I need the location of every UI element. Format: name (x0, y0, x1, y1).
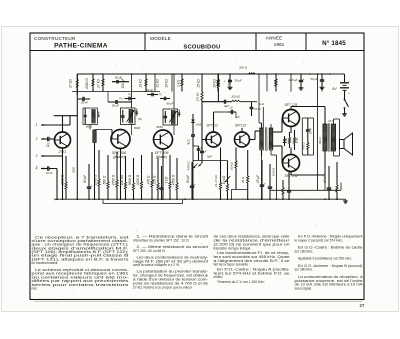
svg-text:6933: 6933 (134, 126, 141, 130)
svg-text:1 kΩ: 1 kΩ (177, 80, 181, 87)
svg-text:9V: 9V (332, 87, 337, 91)
svg-text:ries :: ries : (32, 287, 39, 291)
svg-text:SCOUBIDOU: SCOUBIDOU (184, 44, 221, 50)
svg-text:milieu;: milieu; (214, 275, 224, 279)
svg-text:2200 Ω: 2200 Ω (136, 174, 140, 186)
svg-text:d'émetteur du premier SFT 152: d'émetteur du premier SFT 152 : 10 Ω; (133, 239, 189, 243)
svg-text:fait de la façon suivante :: fait de la façon suivante : (214, 263, 251, 267)
svg-text:100 kΩ: 100 kΩ (120, 174, 124, 185)
svg-text:PATHE-CINEMA: PATHE-CINEMA (54, 42, 108, 49)
svg-text:560 Ω: 560 Ω (102, 175, 106, 184)
svg-text:4700 Ω: 4700 Ω (111, 174, 115, 185)
svg-text:4700 Ω: 4700 Ω (171, 174, 175, 185)
svg-text:2200 Ω: 2200 Ω (60, 174, 64, 186)
svg-text:MODELE: MODELE (150, 36, 171, 41)
svg-text:5µF: 5µF (207, 155, 212, 159)
svg-text:20 nF: 20 nF (80, 100, 88, 104)
svg-text:470 Ω: 470 Ω (146, 175, 150, 184)
svg-text:+: + (224, 79, 226, 83)
svg-text:1000 Ω: 1000 Ω (93, 174, 97, 185)
svg-text:OA5: OA5 (196, 123, 202, 127)
svg-text:(jaune): (jaune) (113, 155, 125, 159)
svg-text:le noyau C (accord) sur 574 kH: le noyau C (accord) sur 574 kHz; (295, 239, 343, 243)
svg-text:+: + (348, 91, 350, 95)
svg-text:+: + (197, 148, 199, 152)
svg-text:100 Ω: 100 Ω (239, 66, 248, 70)
svg-text:10 kΩ: 10 kΩ (139, 79, 143, 88)
svg-text:SFT122: SFT122 (206, 123, 218, 127)
svg-text:H.D: H.D (259, 102, 264, 106)
svg-text:2200 Ω: 2200 Ω (85, 78, 89, 90)
svg-text:39 kΩ: 39 kΩ (165, 79, 169, 88)
svg-text:27 kΩ. Notons à ce propos que: 27 kΩ. Notons à ce propos que la valeur (133, 285, 193, 289)
svg-text:C₃: C₃ (119, 96, 123, 100)
svg-text:5600 Ω: 5600 Ω (128, 174, 132, 185)
svg-text:6933: 6933 (156, 125, 163, 129)
svg-text:SFT122: SFT122 (235, 123, 247, 127)
svg-text:teur) sur 574 kHz et bobine P.: teur) sur 574 kHz et bobine P.O. au (214, 271, 290, 275)
svg-text:10 nF: 10 nF (254, 107, 261, 111)
svg-text:15 kΩ: 15 kΩ (197, 79, 201, 88)
svg-text:27 kΩ: 27 kΩ (97, 79, 101, 89)
svg-text:30 µF: 30 µF (234, 79, 241, 83)
svg-text:µF: µF (236, 115, 239, 119)
svg-text:4,7Ω: 4,7Ω (295, 138, 299, 144)
svg-text:C₂: C₂ (159, 92, 163, 96)
svg-text:56 pF: 56 pF (115, 76, 123, 80)
svg-text:1 kΩ: 1 kΩ (164, 176, 168, 183)
svg-text:2: 2 (35, 137, 38, 141)
svg-text:10 nF: 10 nF (46, 171, 53, 175)
svg-text:25 µF: 25 µF (256, 174, 260, 184)
svg-text:+: + (264, 181, 266, 185)
svg-text:avoir la valeur indiquée à ± 2: avoir la valeur indiquée à ± 2 %. (133, 263, 180, 267)
svg-text:+: + (194, 182, 196, 186)
svg-text:50 µF: 50 µF (310, 77, 317, 81)
svg-text:68 pF: 68 pF (167, 102, 174, 106)
svg-text:+: + (91, 183, 93, 187)
svg-text:C₁: C₁ (128, 92, 131, 96)
svg-text:sur 180 kHz;: sur 180 kHz; (295, 250, 314, 254)
svg-text:27: 27 (360, 303, 365, 308)
svg-text:3300: 3300 (72, 166, 76, 173)
svg-text:100 µF: 100 µF (289, 78, 298, 82)
svg-text:Trimmers du C.V. sur 1 400 kHz: Trimmers du C.V. sur 1 400 kHz; (217, 280, 265, 284)
svg-text:10 kΩ: 10 kΩ (222, 175, 226, 184)
svg-text:+: + (36, 164, 38, 168)
svg-text:sur 280 kHz.: sur 280 kHz. (295, 268, 314, 272)
svg-text:100 kΩ: 100 kΩ (231, 95, 240, 99)
svg-text:50 µF: 50 µF (83, 174, 87, 183)
svg-text:56 µF: 56 µF (112, 104, 119, 108)
svg-text:+: + (303, 77, 305, 81)
svg-text:Ajustable 9 (oscillateur) sur: Ajustable 9 (oscillateur) sur 250 kHz; (298, 257, 352, 261)
svg-text:SFT 152 : 62 ou 68 Ω;: SFT 152 : 62 ou 68 Ω; (133, 249, 166, 253)
svg-text:27 kΩ: 27 kΩ (69, 79, 73, 89)
svg-text:170 kΩ: 170 kΩ (195, 93, 199, 102)
svg-text:(Ω): (Ω) (138, 117, 142, 121)
svg-text:M-T: M-T (328, 119, 333, 123)
svg-text:21-17 kΩ: 21-17 kΩ (214, 174, 218, 187)
svg-text:470 Ω: 470 Ω (302, 142, 306, 149)
svg-text:séries pour certains transisto: séries pour certains transistors (32, 283, 130, 287)
svg-text:100 Ω: 100 Ω (318, 137, 322, 144)
svg-text:nF: nF (46, 144, 49, 148)
svg-text:39 Ω: 39 Ω (241, 176, 245, 183)
svg-text:1: 1 (36, 123, 38, 127)
svg-text:sans signal.: sans signal. (295, 287, 312, 291)
svg-text:50 µF: 50 µF (186, 174, 190, 183)
svg-text:10 nF: 10 nF (323, 174, 327, 183)
svg-text:10: 10 (230, 106, 233, 110)
svg-text:3: 3 (36, 154, 38, 158)
svg-text:39 kΩ: 39 kΩ (213, 79, 217, 88)
svg-text:220 Ω: 220 Ω (152, 175, 156, 185)
svg-text:3µF: 3µF (224, 104, 229, 108)
svg-text:−: − (348, 80, 350, 84)
svg-text:33 µF: 33 µF (146, 88, 153, 92)
svg-text:4700 Ω: 4700 Ω (187, 162, 191, 171)
svg-text:ANNEE: ANNEE (266, 36, 283, 41)
svg-text:62 kΩ: 62 kΩ (229, 161, 233, 169)
svg-text:6933: 6933 (86, 125, 93, 129)
svg-text:12 kΩ: 12 kΩ (156, 79, 160, 88)
svg-text:1961: 1961 (274, 42, 285, 48)
svg-text:un transformateur.: un transformateur. (32, 261, 59, 265)
svg-text:transistor du type indiqué.: transistor du type indiqué. (214, 246, 252, 250)
svg-text:CONSTRUCTEUR: CONSTRUCTEUR (34, 36, 76, 41)
svg-text:6,8 kΩ: 6,8 kΩ (271, 168, 275, 176)
svg-text:10 nF: 10 nF (310, 127, 313, 134)
svg-text:nF: nF (187, 141, 190, 145)
svg-text:N° 1845: N° 1845 (322, 40, 346, 47)
